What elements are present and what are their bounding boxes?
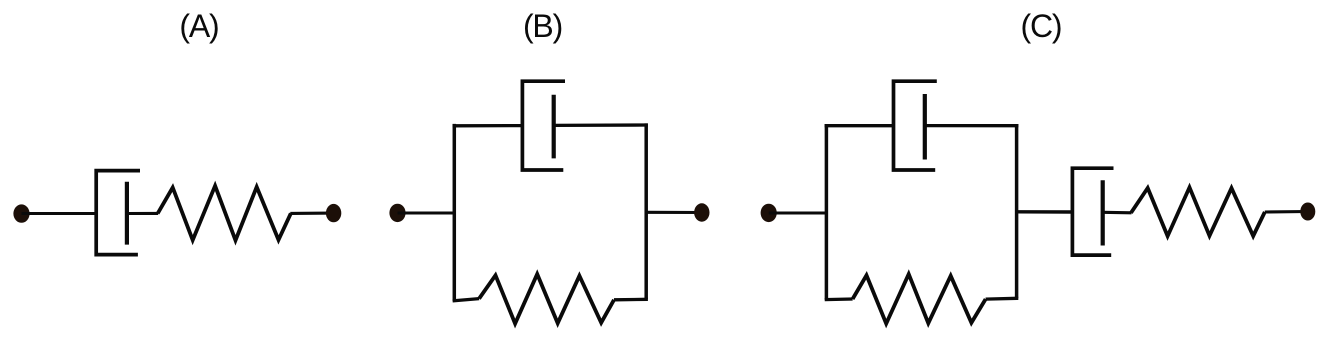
wire: C bottom branch right lead [986,297,1019,301]
wire: C4 plate to resistor R4 [1103,211,1132,215]
wire: B bottom branch right lead [614,298,648,302]
wire: B top branch left lead [453,124,523,128]
capacitor C3 (parallel capacitor of C) [894,81,937,170]
resistor R2 (parallel resistor of B) [479,274,614,324]
wire: A left terminal to capacitor CPE1 [22,212,97,215]
wire: C bottom branch left lead [825,297,853,301]
wire: B bottom branch left lead [453,299,480,301]
wire: R4 to C right terminal [1265,210,1308,214]
wire: B left branch vertical [453,124,457,301]
wire: CPE1 plate to resistor R1 [127,212,158,215]
node: left terminal of circuit A [13,204,29,222]
node: right terminal of circuit B [694,203,709,221]
node: right terminal of circuit C [1300,203,1315,221]
svg-text:(C): (C) [1020,8,1061,44]
wire: B left terminal to left junction [398,211,457,214]
node: right terminal of circuit A [326,204,341,222]
svg-text:(B): (B) [523,8,562,44]
wire: B right junction to terminal [646,211,702,214]
node: left terminal of circuit B [389,204,405,222]
wire: C left branch vertical [825,124,829,300]
wire: C top branch left lead [825,124,894,127]
wire: B top branch right lead (C2 plate to right vertical) [554,123,648,127]
wire: C left terminal to left junction [769,211,828,214]
wire: C parallel-block right vertical [1015,124,1019,298]
wire: C top branch right lead (C3 plate to right vertical) [925,124,1019,127]
wire: C middle junction to capacitor C4 [1017,210,1073,214]
svg-text:(A): (A) [179,8,218,44]
resistor R3 (parallel resistor of C) [853,274,986,324]
wire: B right branch vertical [644,123,648,299]
capacitor C2 (parallel capacitor of B) [522,81,565,170]
node: left terminal of circuit C [761,204,777,222]
capacitor CPE1 (series element of A) [96,171,140,255]
resistor R1 [158,186,291,241]
resistor R4 (series resistor of C) [1131,187,1265,236]
capacitor C4 (series capacitor of C) [1072,168,1113,255]
wire: R1 to A right terminal [290,212,333,215]
